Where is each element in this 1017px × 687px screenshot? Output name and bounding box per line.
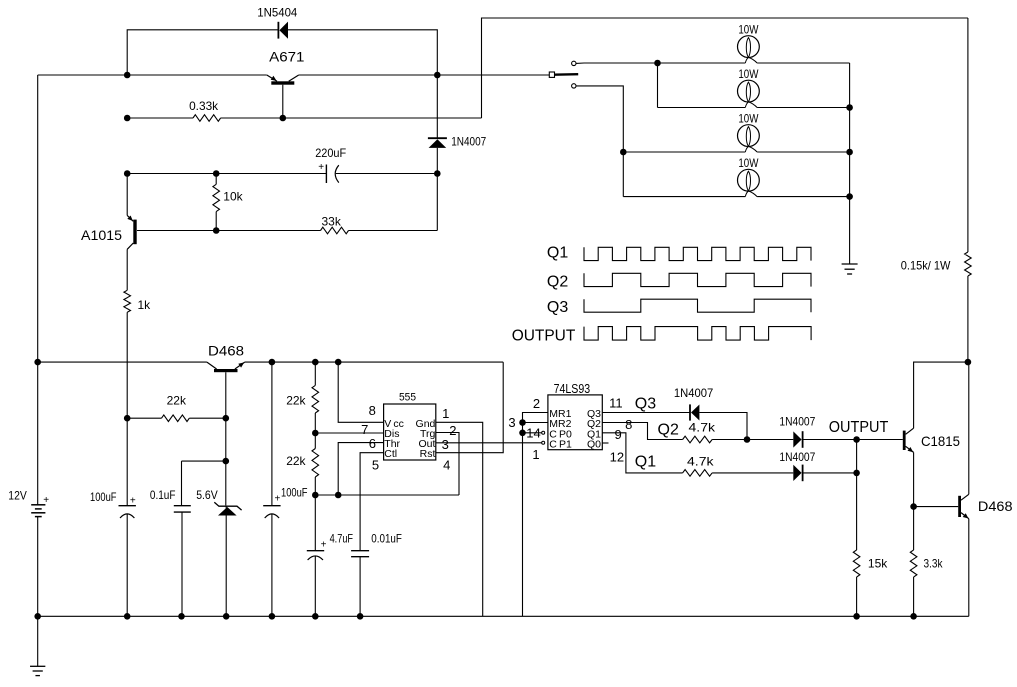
node: junction 0.15k / C1815 / D468 — [965, 359, 972, 366]
svg-text:0.15k/ 1W: 0.15k/ 1W — [901, 259, 951, 273]
wire: vertical x=657.5 rows1-2 — [657, 63, 659, 108]
resistor R9 4.7k Q2 — [683, 436, 713, 443]
svg-text:A671: A671 — [269, 49, 305, 65]
svg-text:100uF: 100uF — [90, 490, 117, 504]
node: junction x=216 y=173.5 — [213, 170, 220, 177]
capacitor C5 4.7uF electrolytic — [314, 495, 316, 551]
svg-text:3: 3 — [442, 437, 449, 452]
svg-text:3: 3 — [508, 415, 515, 430]
node: junction x=315 y=362 — [312, 359, 319, 366]
node: rail 100uF left — [124, 613, 131, 620]
svg-text:+: + — [130, 495, 136, 506]
wire: 22k row y=418 — [127, 417, 162, 419]
wire: left supply rail vertical x=38 — [37, 75, 39, 505]
node: rail left end — [34, 359, 41, 366]
wire: D468 emitter down to ground rail — [968, 519, 970, 617]
svg-text:C1815: C1815 — [921, 433, 960, 449]
svg-text:7: 7 — [361, 422, 368, 437]
svg-text:8: 8 — [625, 417, 632, 432]
diode D2 1N4007 (pointing up) — [428, 137, 447, 139]
svg-text:220uF: 220uF — [315, 146, 346, 160]
node: junction x=127 y=173.5 — [124, 170, 131, 177]
wire: top loop y=30 with corners — [127, 30, 278, 75]
diode D4 1N4007 (pointing left) on Q3 — [689, 404, 691, 420]
svg-text:6: 6 — [369, 436, 376, 451]
svg-text:4.7k: 4.7k — [687, 455, 715, 469]
svg-text:+: + — [275, 494, 281, 505]
wire: right rail 0.15k to node — [967, 276, 969, 362]
svg-text:+: + — [318, 162, 324, 173]
wire: Q0 stub pin12 — [602, 442, 608, 444]
svg-text:0.01uF: 0.01uF — [371, 531, 402, 545]
ground lamp rail — [842, 263, 858, 265]
svg-text:D468: D468 — [978, 498, 1013, 514]
wire: MR1/MR2 tie down to ground rail — [523, 413, 548, 617]
wire: Dis pin7 to 22k junction — [315, 432, 383, 434]
diode D5 1N4007 (pointing right) on OUTPUT — [793, 431, 801, 447]
svg-text:5.6V: 5.6V — [196, 488, 218, 502]
wire: lamp row1 y=63 — [576, 62, 584, 64]
waveform Q2 — [584, 273, 811, 286]
lamp L3 10W — [738, 125, 760, 147]
wire: OUTPUT node down to Q1 row and 15k — [856, 440, 858, 551]
svg-text:OUTPUT: OUTPUT — [512, 327, 576, 344]
svg-text:5: 5 — [372, 457, 379, 472]
resistor R7 22k upper vertical — [314, 362, 316, 385]
node: junction x=338 y=495 — [335, 492, 342, 499]
svg-text:555: 555 — [399, 391, 416, 403]
svg-text:0.33k: 0.33k — [189, 99, 219, 113]
svg-text:22k: 22k — [167, 394, 187, 408]
svg-text:Q3: Q3 — [635, 396, 656, 413]
wire: A1015 base row y=230.5 with 33k — [137, 230, 321, 232]
wire: feed from 0.33k row up and across top y=18 — [482, 18, 968, 118]
node: junction row2 right — [846, 104, 853, 111]
wire: base row y=118 (0.33k row) — [127, 117, 193, 119]
node: junction x=272 y=362 — [269, 359, 276, 366]
wire: Vcc rail y=362 — [38, 361, 207, 363]
svg-text:Q3: Q3 — [547, 299, 568, 316]
wire: 220uF row y=173.5 — [127, 173, 326, 175]
node: rail 4.7uF — [312, 613, 319, 620]
transistor Q1 A671 (PNP, horizontal) — [271, 81, 294, 84]
lamp L1 10W — [738, 36, 760, 58]
wire: lower throw to rows3-4 — [576, 86, 623, 197]
svg-text:12: 12 — [610, 449, 624, 464]
node: rail 3.3k — [910, 613, 917, 620]
svg-text:Q2: Q2 — [658, 422, 679, 439]
svg-text:4.7uF: 4.7uF — [330, 531, 353, 545]
wire: Q2 pin8 path — [602, 423, 682, 440]
node: rail 0.1uF — [178, 613, 185, 620]
capacitor C2 0.1uF — [174, 505, 191, 507]
waveform Q1 — [584, 247, 811, 260]
resistor R11 15k — [853, 550, 860, 577]
wire: CP0 stub — [523, 432, 542, 434]
lamp L2 10W — [738, 80, 760, 102]
pin bubble CP0 — [542, 431, 545, 434]
wire: base row to D468 — [914, 506, 959, 508]
wire: 0.1uF row y=461 — [182, 460, 226, 462]
svg-text:2: 2 — [449, 423, 456, 438]
resistor R12 3.3k — [913, 507, 915, 550]
svg-text:1N5404: 1N5404 — [257, 5, 297, 19]
ground main — [30, 665, 45, 667]
wire: lamp right rail x=849.6 — [849, 63, 851, 264]
node: rail battery — [34, 613, 41, 620]
wire: C1815 collector up to node — [914, 362, 968, 428]
switch SW1 common arm — [554, 73, 578, 76]
node: Q1/OUTPUT junction — [853, 470, 860, 477]
svg-text:A1015: A1015 — [81, 227, 122, 243]
node: junction row4 right — [846, 193, 853, 200]
wire: emitter/collector vertical x=127 — [126, 249, 128, 290]
node: junction x=226 y=418 — [223, 415, 230, 422]
wire: 0.1uF vertical — [181, 461, 183, 506]
node: junction row3 right — [846, 149, 853, 156]
capacitor C1 220uF electrolytic — [325, 165, 327, 184]
wire: Vcc pin8 to rail — [338, 362, 383, 422]
op-amp U1 555 timer box — [384, 404, 436, 460]
wire: right rail down to 0.15k — [967, 18, 969, 252]
op-amp U2 74LS93 counter box — [548, 395, 602, 450]
zener D3 5.6V — [214, 502, 241, 510]
svg-text:Q1: Q1 — [547, 244, 568, 261]
svg-text:Q1: Q1 — [635, 454, 656, 471]
wire: Rst pin4 to Vcc rail — [436, 362, 503, 453]
node: A671 base junction — [280, 115, 287, 122]
wire: vertical x=437 from y=75 to 1N4007 — [436, 75, 438, 138]
svg-text:10W: 10W — [738, 67, 759, 81]
svg-text:12V: 12V — [8, 489, 27, 503]
wire: lamp row2 y=107.5 — [658, 107, 746, 109]
node: rail 15k — [853, 613, 860, 620]
svg-text:1: 1 — [442, 406, 449, 421]
svg-text:1N4007: 1N4007 — [779, 450, 815, 464]
switch throw contact upper — [572, 61, 576, 65]
node: junction x=437 y=173.5 — [434, 170, 441, 177]
wire: collector row y=75 — [38, 74, 267, 76]
wire: lamp row4 y=196.6 — [623, 196, 745, 198]
svg-text:33k: 33k — [322, 215, 342, 229]
diode D1 1N5404 (pointing left) — [277, 22, 279, 39]
svg-text:4.7k: 4.7k — [689, 421, 717, 435]
svg-text:9: 9 — [614, 427, 621, 442]
wire: Q3 pin11 row y=412.5 — [602, 412, 690, 414]
node: junction row3 x=623 — [620, 149, 627, 156]
node: junction x=315 y=495 — [312, 492, 319, 499]
svg-text:1N4007: 1N4007 — [674, 386, 714, 400]
wire: Out pin3 to CP1 — [436, 442, 542, 444]
waveform OUTPUT — [584, 327, 811, 341]
wire: lamp row3 y=152 — [623, 151, 745, 153]
svg-text:C P1: C P1 — [549, 439, 572, 451]
svg-text:1: 1 — [532, 447, 539, 462]
svg-text:+: + — [321, 539, 327, 550]
node: rail 100uF right — [269, 613, 276, 620]
resistor R6 22k horizontal — [162, 415, 190, 422]
node: junction x=127 y=118 — [124, 115, 131, 122]
wire: Ctl pin5 to 0.01uF — [360, 453, 384, 551]
svg-text:10k: 10k — [223, 189, 243, 203]
svg-text:1N4007: 1N4007 — [779, 415, 815, 429]
transistor Q3 D468 (horizontal) — [214, 369, 238, 372]
node: junction x=226 y=461 — [223, 458, 230, 465]
node: MR2 junction — [519, 419, 526, 426]
svg-text:1N4007: 1N4007 — [451, 135, 486, 149]
svg-text:D468: D468 — [208, 343, 244, 359]
wire: ground rail y=616.3 — [38, 615, 969, 617]
wire: C1815 emitter down — [913, 452, 915, 506]
transistor Q4 C1815 (NPN vertical) — [903, 431, 906, 450]
svg-text:Rst: Rst — [420, 448, 436, 460]
capacitor C3 100uF left — [119, 505, 136, 507]
wire: Trg pin2 loop to Thr junction — [436, 433, 459, 496]
node: emitter/base junction — [910, 503, 917, 510]
diode D6 1N4007 (pointing right) on Q1 — [793, 465, 801, 481]
svg-text:Ctl: Ctl — [384, 448, 397, 460]
svg-text:10W: 10W — [738, 156, 759, 170]
wire: Q1 pin9 path — [602, 433, 682, 473]
lamp L4 10W — [738, 169, 760, 191]
svg-text:22k: 22k — [286, 394, 306, 408]
wire: rail to main ground — [37, 616, 39, 666]
svg-text:+: + — [43, 495, 49, 506]
node: OUTPUT junction — [853, 436, 860, 443]
resistor R2 10k (vertical) — [215, 174, 217, 185]
node: junction x=127 y=75 — [124, 72, 131, 79]
svg-text:22k: 22k — [286, 454, 306, 468]
capacitor C6 0.01uF — [351, 550, 369, 552]
svg-text:0.1uF: 0.1uF — [150, 488, 176, 502]
transistor Q2 A1015 (PNP, vertical) — [133, 220, 136, 245]
battery BT1 12V — [31, 504, 45, 506]
svg-text:100uF: 100uF — [281, 486, 308, 500]
resistor R4 1k (vertical) — [124, 290, 131, 312]
svg-text:8: 8 — [369, 403, 376, 418]
capacitor C4 100uF right — [263, 505, 280, 507]
svg-text:4: 4 — [443, 457, 450, 472]
node: junction row1 x=657.5 — [654, 60, 661, 67]
svg-text:74LS93: 74LS93 — [554, 381, 591, 396]
resistor R5 0.15k/1W (vertical) — [965, 252, 972, 276]
svg-text:10W: 10W — [738, 112, 759, 126]
svg-text:Q2: Q2 — [547, 274, 568, 291]
svg-text:Q0: Q0 — [587, 439, 601, 451]
resistor R10 4.7k Q1 — [683, 470, 713, 477]
svg-text:1k: 1k — [138, 298, 152, 312]
node: Q3/Q2 junction — [744, 436, 751, 443]
waveform Q3 — [584, 299, 811, 312]
node: junction x=437 y=75 — [434, 72, 441, 79]
wire: Thr pin6 down to junction — [338, 443, 383, 495]
node: junction x=127 y=418 — [124, 415, 131, 422]
node: junction x=216 y=230.5 — [213, 227, 220, 234]
wire: OUTPUT to C1815 base — [857, 439, 903, 441]
svg-text:OUTPUT: OUTPUT — [829, 419, 889, 436]
svg-text:11: 11 — [609, 395, 623, 410]
wire: x=127 down to 100uF — [126, 312, 128, 506]
pin bubble CP1 — [542, 441, 545, 444]
node: rail 0.01uF — [357, 613, 364, 620]
wire: Gnd pin1 down to ground rail — [436, 422, 483, 616]
node: rail zener — [223, 613, 230, 620]
resistor R3 33k — [321, 227, 349, 234]
svg-text:2: 2 — [533, 396, 540, 411]
wire: Thr junction row y=495 — [315, 494, 459, 496]
node: junction Dis x=315 — [312, 430, 319, 437]
svg-text:15k: 15k — [868, 556, 888, 570]
transistor Q5 D468 (NPN vertical) — [958, 496, 961, 517]
resistor R1 0.33k — [193, 115, 221, 122]
node: CP0 junction — [519, 430, 526, 437]
resistor R8 22k lower vertical — [312, 449, 319, 478]
svg-text:3.3k: 3.3k — [924, 556, 944, 570]
switch throw contact lower — [572, 84, 576, 88]
wire: MR2 stub — [523, 422, 548, 424]
svg-text:10W: 10W — [738, 23, 759, 37]
node: junction x=338 y=362 — [335, 359, 342, 366]
wire: D468 collector up to node — [968, 362, 970, 494]
